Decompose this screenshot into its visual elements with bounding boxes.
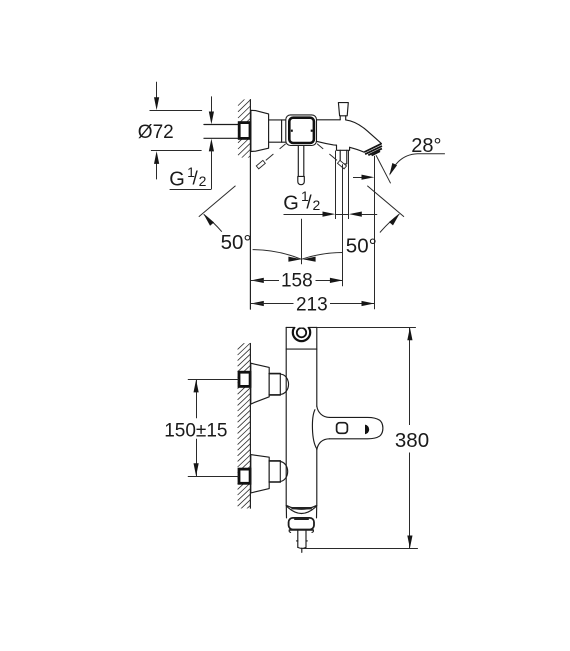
svg-text:/: / bbox=[306, 192, 312, 213]
svg-text:G: G bbox=[169, 169, 185, 191]
svg-text:50°: 50° bbox=[221, 231, 252, 254]
svg-text:213: 213 bbox=[296, 295, 328, 316]
svg-text:Ø72: Ø72 bbox=[138, 122, 174, 143]
svg-text:/: / bbox=[193, 168, 199, 189]
svg-text:158: 158 bbox=[281, 270, 313, 291]
svg-text:28°: 28° bbox=[411, 135, 441, 157]
svg-text:G: G bbox=[283, 193, 299, 215]
svg-text:150±15: 150±15 bbox=[164, 421, 227, 442]
svg-text:50°: 50° bbox=[346, 234, 377, 257]
svg-text:2: 2 bbox=[199, 173, 207, 189]
svg-text:2: 2 bbox=[313, 197, 321, 213]
svg-text:380: 380 bbox=[395, 429, 429, 452]
